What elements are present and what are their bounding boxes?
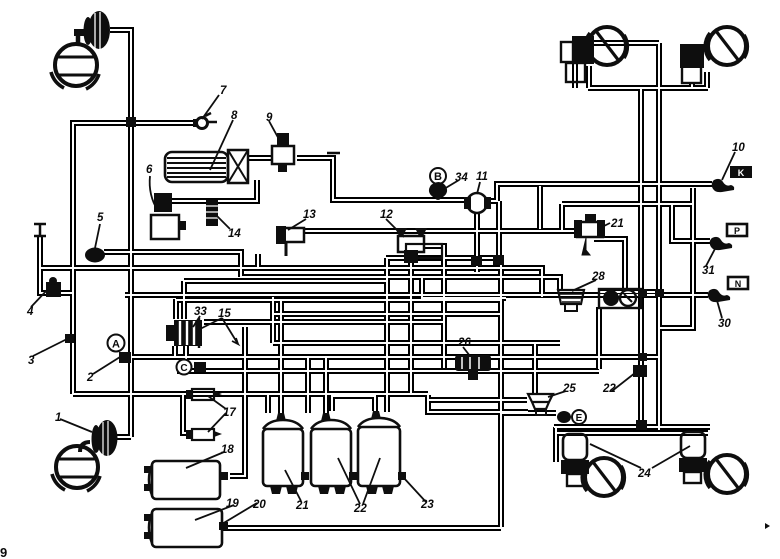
front-left wheel: [51, 44, 99, 89]
leader 4: [31, 288, 49, 307]
svg-text:18: 18: [221, 444, 234, 456]
component 28 muffler: [558, 290, 584, 311]
svg-text:33: 33: [194, 306, 207, 318]
svg-text:34: 34: [455, 172, 468, 184]
leader 24 double: [590, 444, 690, 468]
drain valve 17a: [186, 389, 222, 400]
svg-text:7: 7: [220, 85, 227, 97]
reservoir 22a: [311, 413, 357, 494]
compressor 8: [165, 150, 248, 183]
leader 5: [95, 224, 100, 248]
svg-text:3: 3: [28, 355, 35, 367]
node V14 top: [493, 255, 504, 265]
leader 1: [60, 419, 92, 432]
rear right chamber: [679, 432, 707, 483]
leader 28: [572, 280, 596, 291]
valve 7: [193, 113, 217, 129]
leader 14: [216, 215, 230, 229]
coupling head N: [708, 277, 748, 302]
leader 19: [195, 505, 234, 520]
reservoir 21: [263, 413, 309, 494]
svg-text:N: N: [735, 279, 742, 289]
svg-text:15: 15: [218, 308, 231, 320]
svg-text:P: P: [734, 226, 740, 236]
svg-text:24: 24: [637, 468, 651, 480]
leader 6: [150, 176, 158, 211]
leader 22r: [612, 373, 635, 391]
node right of C: [194, 362, 206, 372]
svg-text:9: 9: [266, 112, 273, 124]
rear left wheel: [582, 458, 624, 496]
svg-text:11: 11: [476, 171, 488, 183]
leader 7: [202, 95, 219, 119]
leader 20: [222, 503, 257, 524]
svg-text:26: 26: [457, 337, 471, 349]
leader 23: [403, 477, 426, 502]
svg-text:8: 8: [231, 110, 238, 122]
node V18 x line357: [638, 353, 647, 361]
valve 29: [574, 214, 605, 255]
svg-text:19: 19: [226, 498, 239, 510]
coupling head P: [710, 224, 747, 250]
pressure regulator 9: [272, 133, 294, 172]
leader 26: [463, 347, 470, 356]
circled C: [177, 360, 192, 375]
svg-text:12: 12: [380, 209, 393, 221]
rear right wheel: [705, 455, 747, 493]
circled B: [430, 168, 446, 184]
leader 9: [269, 121, 281, 143]
node V18/frame: [636, 420, 647, 430]
reservoir 19: [144, 509, 228, 547]
svg-text:31: 31: [702, 265, 715, 277]
node V18 x N line: [638, 289, 647, 297]
bottom-left brake chamber: [80, 420, 118, 456]
svg-text:22: 22: [353, 503, 367, 515]
node on V18 y=371: [633, 365, 647, 377]
svg-text:10: 10: [732, 142, 745, 154]
valve 13: [276, 226, 304, 256]
number labels: [26, 85, 745, 515]
leader 3: [33, 338, 69, 356]
drain valve 17b: [186, 429, 222, 440]
component 26: [455, 355, 491, 380]
svg-text:17: 17: [223, 407, 236, 419]
leader 10: [722, 152, 735, 180]
leader 18: [186, 452, 224, 468]
node V19 x N line: [655, 289, 664, 297]
svg-text:14: 14: [228, 228, 241, 240]
leader lines: [31, 95, 735, 524]
leader 2: [93, 357, 120, 374]
leader 25: [548, 391, 566, 397]
leader 30: [716, 297, 722, 318]
pipe network ink: [40, 30, 712, 528]
svg-text:20: 20: [252, 499, 266, 511]
corner artifact bottom-right: [765, 523, 770, 529]
brake valve 16 (two-section): [166, 318, 202, 348]
leader 33 15 arrows: [193, 316, 238, 344]
svg-text:1: 1: [55, 412, 61, 424]
svg-text:4: 4: [26, 306, 34, 318]
svg-text:5: 5: [97, 212, 104, 224]
circled A: [108, 335, 125, 352]
circled E: [572, 410, 586, 424]
svg-text:A: A: [112, 339, 120, 351]
svg-text:22: 22: [602, 383, 616, 395]
node V13 bottom: [471, 256, 482, 266]
pipe network white core: [40, 30, 712, 528]
component 6 filter: [151, 193, 186, 239]
svg-text:E: E: [576, 413, 583, 424]
front-left brake chamber: [74, 11, 110, 49]
svg-text:2: 2: [86, 372, 94, 384]
reservoir 18: [144, 461, 228, 499]
valve 4: [46, 277, 61, 297]
leader 21: [285, 470, 301, 501]
svg-text:9: 9: [0, 545, 7, 559]
tick 3 on V1: [65, 334, 74, 343]
rear left chamber: [561, 434, 589, 486]
svg-text:B: B: [434, 171, 442, 183]
svg-text:6: 6: [146, 164, 153, 176]
leader 8: [210, 120, 233, 170]
svg-text:K: K: [738, 168, 745, 178]
node before E: [557, 411, 571, 423]
component 27 two-gauge: [599, 289, 641, 308]
reservoir 22b: [358, 411, 406, 494]
node V2 x line122: [126, 117, 136, 127]
valve 12: [395, 228, 442, 263]
leader 13: [288, 219, 306, 230]
top right left chamber: [561, 36, 594, 82]
node at A: [119, 352, 131, 363]
leader 17 double: [208, 396, 226, 432]
leader 22 double: [338, 458, 380, 504]
svg-text:C: C: [180, 363, 187, 374]
component 5: [85, 248, 105, 263]
svg-text:23: 23: [420, 499, 434, 511]
leader 11: [477, 182, 480, 194]
top right right chamber: [680, 44, 704, 83]
coupling head K: [712, 166, 752, 192]
inlet I symbol: [34, 224, 46, 236]
svg-text:21: 21: [295, 500, 309, 512]
svg-text:25: 25: [562, 383, 576, 395]
valve 11: [464, 193, 491, 213]
leader 34: [444, 180, 459, 189]
leader 31: [706, 245, 717, 266]
top right right wheel: [705, 27, 747, 65]
component 34 bulb: [429, 182, 447, 197]
vent tick x=334: [327, 152, 340, 155]
svg-text:30: 30: [718, 318, 731, 330]
leader 29: [600, 223, 610, 228]
top right left wheel: [585, 27, 627, 65]
component 14 heater: [206, 200, 218, 226]
component 25 funnel: [528, 394, 553, 415]
leader 12: [386, 219, 404, 237]
svg-text:13: 13: [303, 209, 316, 221]
svg-text:21: 21: [610, 218, 624, 230]
svg-text:28: 28: [591, 271, 605, 283]
bottom-left wheel: [52, 446, 100, 491]
